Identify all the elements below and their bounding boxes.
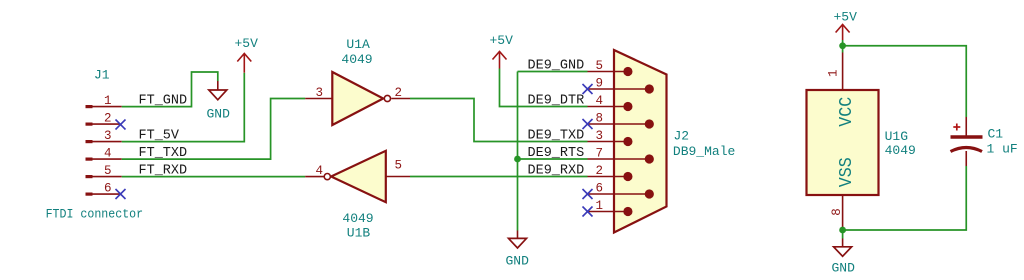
svg-text:VCC: VCC [837, 97, 857, 127]
power +5V middle [490, 33, 514, 69]
svg-text:GND: GND [207, 107, 231, 122]
op-amp U1B (inverter) [305, 151, 410, 241]
svg-text:4049: 4049 [341, 52, 372, 67]
svg-text:1: 1 [104, 94, 112, 108]
svg-text:3: 3 [316, 86, 324, 100]
svg-text:4049: 4049 [342, 211, 373, 226]
svg-text:1 uF: 1 uF [987, 142, 1018, 157]
capacitor C1 [951, 117, 1018, 166]
svg-text:2: 2 [596, 164, 604, 178]
connector J1 pin 1 [86, 94, 122, 108]
ground symbol middle [506, 231, 530, 269]
svg-text:5: 5 [596, 59, 604, 73]
svg-text:J2: J2 [674, 129, 690, 144]
J2 pin 4 [588, 94, 633, 111]
wire DE9_GND [518, 71, 588, 73]
svg-text:DE9_GND: DE9_GND [528, 58, 585, 73]
wire +5V to C1 top [843, 46, 967, 117]
svg-text:U1A: U1A [346, 37, 370, 52]
J2 pin 2 [588, 164, 633, 181]
no-connect X on J2 pin 6 [583, 189, 593, 199]
svg-text:U1B: U1B [347, 226, 371, 241]
svg-text:7: 7 [596, 147, 604, 161]
svg-text:DE9_RXD: DE9_RXD [528, 163, 585, 178]
svg-text:C1: C1 [988, 127, 1004, 142]
wire FT_GND net: pin1 to GND symbol [122, 72, 218, 107]
svg-text:8: 8 [830, 208, 844, 216]
svg-text:6: 6 [104, 182, 112, 196]
svg-text:1: 1 [827, 69, 841, 77]
no-connect X on J1 pin 6 [116, 189, 126, 199]
J2 pin 8 [588, 112, 654, 129]
connector J2 body [614, 50, 667, 233]
svg-text:2: 2 [104, 112, 112, 126]
svg-text:DE9_RTS: DE9_RTS [528, 146, 585, 161]
wire +5V to DE9_DTR [500, 69, 588, 107]
svg-text:9: 9 [596, 77, 604, 91]
no-connect X on J2 pin 8 [583, 119, 593, 129]
IC U1G power unit [807, 46, 916, 230]
svg-text:4: 4 [316, 164, 324, 178]
wire FT_TXD net: pin4 to U1A input [122, 99, 305, 160]
wire FT_RXD net: pin5 to U1B input [122, 176, 305, 178]
wire DE9_GND down to GND [517, 72, 519, 231]
connector J1 pin 6 [86, 182, 120, 196]
wire U1B output to DE9_RXD [410, 176, 588, 178]
svg-text:4: 4 [104, 147, 112, 161]
svg-text:1: 1 [596, 199, 604, 213]
junction +5V right [839, 42, 846, 49]
svg-text:U1G: U1G [885, 129, 908, 144]
ground symbol left [207, 81, 231, 122]
wire U1A output to DE9_TXD [410, 99, 588, 142]
op-amp U1A (inverter) [305, 37, 410, 125]
J2 pin 5 [588, 59, 633, 76]
connector J1 pin 3 [86, 129, 122, 143]
svg-text:5: 5 [395, 159, 403, 173]
J2 pin 3 [588, 129, 633, 146]
power +5V left [235, 36, 259, 73]
no-connect X on J1 pin 2 [116, 120, 126, 130]
ground symbol right [832, 230, 856, 276]
svg-text:+5V: +5V [834, 10, 858, 25]
J2 pin 7 [588, 147, 654, 164]
svg-text:+5V: +5V [235, 36, 259, 51]
connector J1 pin 5 [86, 164, 122, 178]
svg-text:3: 3 [104, 129, 112, 143]
junction GND right [839, 227, 846, 234]
svg-text:DE9_DTR: DE9_DTR [528, 93, 585, 108]
svg-text:4: 4 [596, 94, 604, 108]
svg-text:5: 5 [104, 164, 112, 178]
svg-text:8: 8 [596, 112, 604, 126]
svg-text:6: 6 [596, 182, 604, 196]
svg-text:DB9_Male: DB9_Male [673, 144, 735, 159]
power +5V right [834, 10, 858, 46]
junction on GND net at RTS row [514, 156, 521, 163]
svg-text:3: 3 [596, 129, 604, 143]
svg-text:GND: GND [506, 254, 530, 269]
connector J1 pin 4 [86, 147, 122, 161]
no-connect X on J2 pin 9 [583, 84, 593, 94]
no-connect X on J2 pin 1 [583, 207, 593, 217]
connector J1 pin 2 [86, 112, 120, 126]
svg-text:2: 2 [395, 86, 403, 100]
svg-text:J1: J1 [94, 68, 110, 83]
J2 pin 9 [588, 77, 654, 94]
wire C1 bottom to GND [843, 166, 967, 230]
svg-text:GND: GND [832, 261, 856, 276]
svg-text:DE9_TXD: DE9_TXD [528, 128, 585, 143]
svg-text:+5V: +5V [490, 33, 514, 48]
svg-text:VSS: VSS [837, 157, 857, 187]
J2 pin 6 [588, 182, 654, 199]
svg-text:FTDI connector: FTDI connector [46, 207, 144, 222]
svg-text:4049: 4049 [885, 143, 916, 158]
wire DE9_RTS [518, 158, 588, 160]
wire FT_5V net: pin3 to +5V [122, 73, 245, 142]
J2 pin 1 [588, 199, 633, 216]
